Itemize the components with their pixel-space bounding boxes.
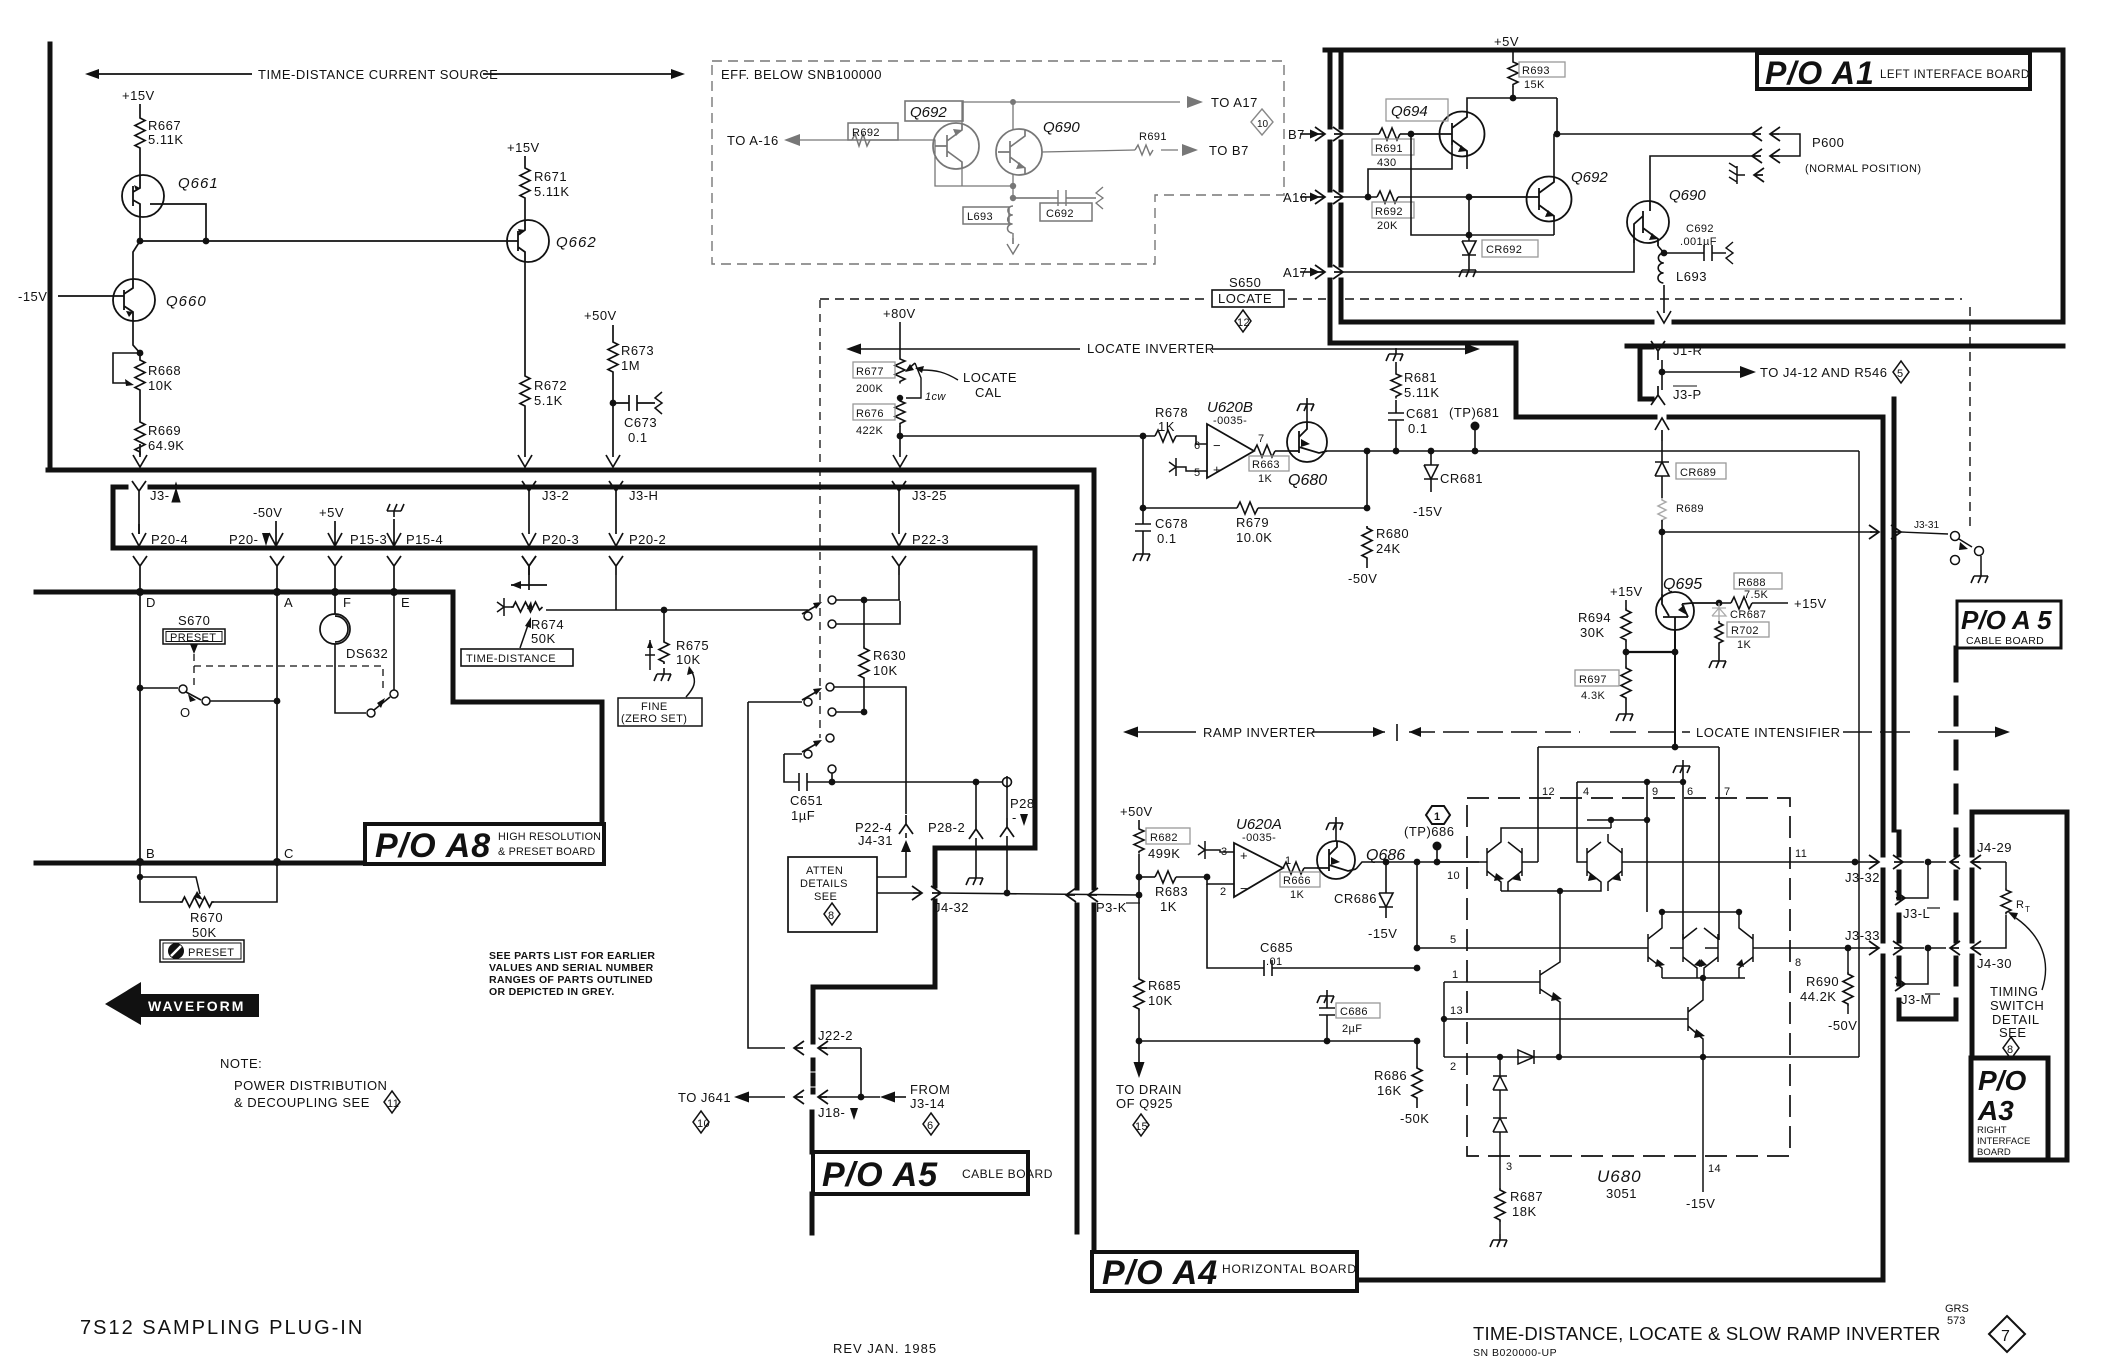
ground U680 top [1673, 760, 1690, 773]
wire Q661 base right to bus [150, 204, 206, 241]
svg-text:4.3K: 4.3K [1581, 690, 1605, 702]
wire R672 to bus arrow [518, 408, 532, 467]
wire mid line to P28 [973, 779, 980, 786]
node -50V feed [229, 505, 283, 547]
svg-text:LOCATE INTENSIFIER: LOCATE INTENSIFIER [1696, 725, 1841, 740]
svg-text:6: 6 [927, 1120, 934, 1132]
svg-text:R692: R692 [1375, 206, 1403, 218]
svg-text:R683: R683 [1155, 884, 1188, 899]
ground feed P15-4 [387, 504, 443, 547]
svg-text:+80V: +80V [883, 306, 916, 321]
connector J4-29 [1971, 840, 2012, 862]
svg-text:Q661: Q661 [178, 175, 219, 192]
resistor R630 [859, 600, 906, 715]
svg-text:9: 9 [1652, 786, 1659, 798]
svg-text:7: 7 [2001, 1328, 2010, 1345]
svg-text:64.9K: 64.9K [148, 438, 184, 453]
svg-text:2: 2 [1450, 1061, 1457, 1073]
svg-text:P15-3: P15-3 [350, 532, 387, 547]
switch E contacts [367, 592, 398, 717]
wire J18 segment [811, 1060, 816, 1092]
svg-text:20K: 20K [1377, 220, 1398, 232]
svg-text:R674: R674 [531, 617, 564, 632]
resistor R683 [1139, 871, 1210, 914]
svg-text:J18-: J18- [818, 1105, 845, 1120]
diode CR689 [1655, 441, 1726, 498]
svg-text:R687: R687 [1510, 1189, 1543, 1204]
wire pin5 line [1417, 947, 1630, 949]
svg-text:50K: 50K [531, 631, 556, 646]
svg-text:PRESET: PRESET [170, 632, 216, 644]
svg-text:PRESET: PRESET [188, 947, 234, 959]
wire A17 [1283, 243, 1634, 280]
transistor mirror right [1444, 978, 1703, 1056]
svg-text:C685: C685 [1260, 940, 1293, 955]
svg-text:J1-R: J1-R [1673, 343, 1702, 358]
svg-text:Q690: Q690 [1669, 187, 1706, 204]
svg-text:5.11K: 5.11K [1404, 385, 1440, 400]
wire A8 node bus [36, 592, 602, 826]
svg-text:J3-25: J3-25 [912, 488, 947, 503]
svg-text:C681: C681 [1406, 406, 1439, 421]
resistor R686 [1374, 1041, 1429, 1126]
connector J3-2 fork [522, 481, 569, 503]
svg-text:499K: 499K [1148, 846, 1180, 861]
wire R667 to Q661 [139, 150, 141, 176]
wire A1 left edge inner [1339, 50, 1344, 322]
svg-text:10: 10 [697, 1118, 710, 1130]
svg-text:6: 6 [1687, 786, 1694, 798]
wire A3 left edge [1970, 812, 1975, 1058]
diode series in pin2 line [1518, 1050, 1534, 1064]
svg-text:10K: 10K [873, 663, 898, 678]
wire A1 right edge [2061, 50, 2066, 322]
label box P/O A3 [1971, 1058, 2048, 1160]
wire base bus to Q662 [140, 240, 504, 242]
connector forks below P20 bus [133, 556, 147, 575]
svg-text:OR DEPICTED IN GREY.: OR DEPICTED IN GREY. [489, 986, 615, 998]
node +5V feed [319, 505, 387, 547]
svg-text:3051: 3051 [1606, 1186, 1637, 1201]
svg-text:(ZERO SET): (ZERO SET) [621, 713, 687, 725]
node dots on A8 bus [136, 588, 144, 596]
capacitor C685 [1207, 884, 1420, 976]
transistor Q662 [504, 220, 597, 262]
svg-text:ATTEN: ATTEN [806, 865, 843, 877]
svg-text:TO A-16: TO A-16 [727, 133, 779, 148]
wire J3 bus [150, 485, 1077, 490]
svg-text:HIGH RESOLUTION: HIGH RESOLUTION [498, 831, 601, 843]
wire P20 bus [126, 546, 1035, 551]
svg-text:J4-29: J4-29 [1977, 840, 2012, 855]
section marker LOCATE INVERTER [846, 341, 1480, 356]
wire pin 9 [1646, 782, 1648, 912]
svg-text:422K: 422K [856, 425, 884, 437]
svg-text:R667: R667 [148, 118, 181, 133]
wire stems to A8 node bus [140, 575, 394, 592]
test point TP681 [1449, 405, 1499, 454]
ground fork pin5 [1169, 458, 1207, 476]
svg-text:15K: 15K [1524, 79, 1545, 91]
wire CR689 node to Q695 [1661, 520, 1663, 594]
svg-text:TO J641: TO J641 [678, 1090, 731, 1105]
svg-text:5: 5 [1897, 368, 1904, 380]
svg-text:30K: 30K [1580, 625, 1605, 640]
svg-text:0.1: 0.1 [1408, 421, 1428, 436]
wire Q661 emitter down to node [139, 216, 141, 241]
svg-text:.01: .01 [1266, 956, 1283, 968]
svg-text:12: 12 [1542, 786, 1555, 798]
svg-text:SN B020000-UP: SN B020000-UP [1473, 1347, 1557, 1359]
label box P/O A4 [1092, 1252, 1357, 1292]
box ATTEN DETAILS [788, 857, 877, 932]
transistor Q686 [1317, 817, 1405, 879]
wire gnd rail pins 4/9 [1577, 781, 1683, 783]
wire A3 top edge [1972, 810, 2067, 815]
connector J1-R [1651, 341, 1702, 390]
svg-text:1µF: 1µF [791, 808, 815, 823]
svg-text:RANGES OF PARTS OUTLINED: RANGES OF PARTS OUTLINED [489, 974, 653, 986]
wire R686 column top [1416, 862, 1418, 948]
svg-text:R691: R691 [1139, 131, 1167, 143]
svg-text:P20-4: P20-4 [151, 532, 188, 547]
wire J3-25 stem [898, 500, 900, 534]
svg-text:P/O A4: P/O A4 [1102, 1254, 1218, 1292]
wire A1 left edge outer [1330, 50, 1883, 417]
svg-text:+5V: +5V [1494, 34, 1519, 49]
svg-text:P20-2: P20-2 [629, 532, 666, 547]
connector P22-3 arrow [892, 532, 949, 547]
svg-text:WAVEFORM: WAVEFORM [148, 998, 245, 1014]
svg-text:P/O A8: P/O A8 [375, 827, 491, 865]
svg-text:S670: S670 [178, 613, 210, 628]
svg-text:8: 8 [828, 910, 835, 922]
resistor R682 [1134, 820, 1190, 880]
svg-text:11: 11 [387, 1098, 399, 1110]
svg-text:C678: C678 [1155, 516, 1188, 531]
resistor RT [1980, 862, 2030, 948]
svg-text:1cw: 1cw [925, 391, 946, 403]
resistor R702 [1709, 621, 1769, 668]
svg-text:J4-32: J4-32 [934, 900, 969, 915]
svg-text:+15V: +15V [1794, 596, 1827, 611]
svg-text:TIME-DISTANCE, LOCATE & SLOW R: TIME-DISTANCE, LOCATE & SLOW RAMP INVERT… [1473, 1323, 1941, 1344]
svg-text:R668: R668 [148, 363, 181, 378]
resistor R694 [1578, 584, 1643, 652]
svg-text:R697: R697 [1579, 674, 1607, 686]
svg-text:U620B: U620B [1207, 399, 1253, 416]
svg-text:L693: L693 [967, 211, 993, 223]
wire A3 right edge [2048, 812, 2067, 1160]
svg-text:Q692: Q692 [1571, 169, 1608, 186]
wire pin 10 line into array [1437, 861, 1480, 863]
svg-text:C692: C692 [1046, 208, 1074, 220]
svg-text:13: 13 [1450, 1005, 1463, 1017]
switch label LOCATE CAL [915, 366, 1017, 400]
op-amp U620A [1198, 816, 1292, 898]
section marker RAMP INVERTER / LOCATE INTENSIFIER [1123, 724, 2010, 741]
svg-text:LOCATE: LOCATE [1218, 291, 1272, 306]
svg-text:Q694: Q694 [1391, 103, 1428, 120]
capacitor C673 [613, 392, 662, 445]
wire A column [276, 592, 278, 862]
wire P/O A4 left edge inner [1092, 470, 1097, 1252]
svg-text:R681: R681 [1404, 370, 1437, 385]
svg-text:GRS: GRS [1945, 1303, 1969, 1315]
section marker TIME-DISTANCE CURRENT SOURCE [85, 67, 685, 82]
svg-text:& DECOUPLING SEE: & DECOUPLING SEE [234, 1095, 370, 1110]
svg-text:+50V: +50V [1120, 804, 1153, 819]
connector P20-4 arrow [132, 524, 188, 547]
connector J3-25 fork [892, 481, 947, 503]
diode CR692 [1459, 194, 1538, 277]
svg-text:D: D [146, 595, 156, 610]
wire P/O A4 bottom edge [1357, 1278, 1883, 1283]
label box P/O A5 top right [1957, 601, 2061, 648]
resistor R668 [135, 353, 181, 393]
wire R673 to C673 node [606, 374, 620, 467]
connector J3-L [1895, 862, 1940, 921]
arrow into locate bus [1655, 418, 1669, 441]
wire +50V down [612, 325, 614, 340]
connector B7 [1288, 127, 1379, 142]
wire R676 to input line / J3-25 [893, 426, 907, 467]
node R677/R676 junction [897, 395, 903, 401]
wire TO DRAIN OF Q925 [1116, 1041, 1182, 1136]
svg-text:(NORMAL POSITION): (NORMAL POSITION) [1805, 163, 1921, 175]
svg-text:5.11K: 5.11K [148, 132, 184, 147]
svg-text:J22-2: J22-2 [818, 1028, 853, 1043]
svg-text:SWITCH: SWITCH [1990, 998, 2044, 1013]
svg-text:Q692: Q692 [910, 104, 947, 121]
svg-text:U620A: U620A [1236, 816, 1282, 833]
diode CR687 grey [1712, 603, 1766, 621]
inductor L693 [1657, 253, 1707, 323]
svg-text:RIGHT: RIGHT [1977, 1125, 2007, 1136]
svg-text:F: F [343, 595, 351, 610]
wire pin 6 [1682, 766, 1684, 940]
box U680 dashed outline [1467, 798, 1790, 1156]
svg-text:R630: R630 [873, 648, 906, 663]
wire top chassis bus [48, 468, 1094, 473]
svg-text:J3-2: J3-2 [542, 488, 569, 503]
wire C686 rail [1139, 1040, 1417, 1042]
switch S670 contacts [137, 685, 281, 720]
svg-text:−: − [1213, 438, 1221, 453]
svg-text:R692: R692 [852, 127, 880, 139]
resistor R679 [1140, 436, 1371, 545]
svg-text:R675: R675 [676, 638, 709, 653]
diode CR681 [1413, 448, 1483, 519]
svg-text:R694: R694 [1578, 610, 1611, 625]
wire Q695 emitter down [1674, 652, 1676, 747]
svg-text:R693: R693 [1522, 65, 1550, 77]
connector J4-32 [877, 886, 1139, 915]
svg-text:7: 7 [1724, 786, 1731, 798]
svg-text:R682: R682 [1150, 832, 1178, 844]
svg-text:Q680: Q680 [1288, 472, 1327, 489]
potentiometer R674 time-distance [497, 556, 616, 646]
wire P/O A5 stem [810, 1112, 815, 1233]
connector P20-3 arrow [522, 532, 579, 547]
svg-text:J3-: J3- [150, 488, 170, 503]
svg-text:R702: R702 [1731, 625, 1759, 637]
wire J3-2 stem [528, 500, 530, 534]
wire pin 12 [1537, 747, 1539, 850]
svg-text:0.1: 0.1 [628, 430, 648, 445]
connector J3-P [1651, 386, 1702, 405]
wire output feedback drop [1366, 451, 1368, 508]
svg-text:-15V: -15V [1368, 926, 1397, 941]
svg-text:R676: R676 [856, 408, 884, 420]
wire array output to J3-32 [1647, 861, 1877, 863]
wire +15V to R671 [524, 156, 526, 166]
svg-text:7S12 SAMPLING PLUG-IN: 7S12 SAMPLING PLUG-IN [80, 1317, 364, 1339]
svg-text:P28-2: P28-2 [928, 820, 965, 835]
svg-text:J4-31: J4-31 [858, 833, 893, 848]
capacitor C692 (early) [1013, 187, 1103, 221]
wire R671 to Q662 [524, 200, 526, 220]
svg-text:J3-P: J3-P [1673, 387, 1702, 402]
node junction dots [137, 238, 144, 245]
resistor R680 [1348, 526, 1409, 586]
svg-text:TO J4-12 AND R546: TO J4-12 AND R546 [1760, 365, 1887, 380]
svg-text:R677: R677 [856, 366, 884, 378]
wire J1-R bracket [1640, 347, 1652, 399]
op-amp U620B [1194, 399, 1265, 479]
svg-text:O: O [180, 705, 191, 720]
ground fork near Q690 base [1729, 163, 1764, 184]
svg-text:P3-K: P3-K [1096, 900, 1127, 915]
svg-text:8: 8 [1795, 957, 1802, 969]
svg-text:10K: 10K [676, 652, 701, 667]
svg-text:14: 14 [1708, 1163, 1721, 1175]
svg-text:TO B7: TO B7 [1209, 143, 1249, 158]
inductor L693 (early) [963, 206, 1019, 254]
wire A8 bottom [36, 861, 367, 866]
wire Q680 output line [1327, 450, 1859, 452]
svg-text:CR689: CR689 [1680, 467, 1716, 479]
svg-text:J3-14: J3-14 [910, 1096, 945, 1111]
wire right board edge outer [1881, 417, 1886, 1280]
svg-text:B: B [146, 846, 155, 861]
svg-text:1M: 1M [621, 358, 640, 373]
switch label FINE ZERO SET [618, 666, 702, 726]
transistor mirror left [1444, 891, 1560, 1056]
svg-text:LEFT INTERFACE BOARD: LEFT INTERFACE BOARD [1880, 69, 2030, 81]
svg-text:A: A [284, 595, 293, 610]
wire Q660 emitter down [133, 321, 140, 353]
svg-text:(TP)686: (TP)686 [1404, 824, 1454, 839]
svg-text:SEE: SEE [1999, 1025, 2027, 1040]
svg-text:U680: U680 [1597, 1167, 1642, 1186]
svg-text:A3: A3 [1977, 1095, 2014, 1126]
test point TP686 [1404, 824, 1454, 865]
wire R694/Q695 emitter rail [1623, 630, 1679, 655]
resistor R687 [1490, 1188, 1543, 1247]
switch S650 contacts (right) [1951, 532, 1989, 584]
svg-text:LOCATE INVERTER: LOCATE INVERTER [1087, 341, 1215, 356]
svg-text:R: R [2016, 899, 2024, 911]
node R668 top dot [137, 350, 144, 357]
svg-text:R670: R670 [190, 910, 223, 925]
wire Q694/Q692 emitter rail [1411, 134, 1554, 235]
resistor R666 [1280, 862, 1320, 901]
svg-text:44.2K: 44.2K [1800, 989, 1836, 1004]
wire cable dashed edge left [1899, 648, 1956, 1019]
svg-text:OF Q925: OF Q925 [1116, 1096, 1173, 1111]
svg-text:5: 5 [1450, 934, 1457, 946]
wire P22 bus turn down [813, 548, 1035, 1042]
svg-text:L693: L693 [1676, 269, 1707, 284]
svg-text:R678: R678 [1155, 405, 1188, 420]
svg-text:C692: C692 [1686, 223, 1714, 235]
svg-text:11: 11 [1795, 848, 1807, 860]
svg-text:P20-: P20- [229, 532, 258, 547]
svg-text:.001µF: .001µF [1680, 236, 1717, 248]
svg-text:C686: C686 [1340, 1006, 1368, 1018]
resistor R669 [135, 420, 184, 454]
transistor array quad 1 [1480, 820, 1647, 891]
resistor R697 [1575, 652, 1633, 721]
svg-text:P/O A1: P/O A1 [1765, 55, 1875, 91]
wire Q686 output line [1356, 862, 1479, 869]
svg-text:TO DRAIN: TO DRAIN [1116, 1082, 1182, 1097]
svg-text:J3-L: J3-L [1903, 906, 1930, 921]
connector J18-V [794, 1090, 864, 1120]
svg-text:P28: P28 [1010, 796, 1035, 811]
resistor R667 [135, 116, 184, 150]
capacitor C686 [1317, 990, 1380, 1044]
svg-text:0.1: 0.1 [1157, 531, 1177, 546]
wire J3-31 [1662, 520, 1948, 539]
transistor Q694 [1386, 99, 1485, 157]
wire input line to R678 [900, 435, 1155, 437]
svg-text:P/O: P/O [1978, 1065, 2026, 1096]
svg-text:1: 1 [1434, 811, 1441, 823]
svg-text:C: C [284, 846, 294, 861]
wire Q660 collector up [133, 241, 140, 279]
potentiometer R677 [853, 357, 946, 403]
svg-text:P20-3: P20-3 [542, 532, 579, 547]
svg-text:6: 6 [1194, 440, 1201, 452]
connector P3-K [1066, 888, 1140, 915]
wire pin 14 to -15V [1702, 1057, 1704, 1192]
svg-text:R663: R663 [1252, 459, 1280, 471]
connector J3-33 [1845, 928, 2012, 971]
svg-text:P22-3: P22-3 [912, 532, 949, 547]
svg-text:NOTE:: NOTE: [220, 1056, 262, 1071]
svg-text:(TP)681: (TP)681 [1449, 405, 1499, 420]
svg-text:R686: R686 [1374, 1068, 1407, 1083]
wire R668 to R669 [139, 392, 141, 420]
svg-text:-50V: -50V [1828, 1018, 1857, 1033]
resistor R678 [1155, 405, 1207, 444]
svg-text:R688: R688 [1738, 577, 1766, 589]
svg-text:SEE PARTS LIST FOR EARLIER: SEE PARTS LIST FOR EARLIER [489, 950, 655, 962]
svg-text:Q695: Q695 [1663, 576, 1702, 593]
svg-text:50K: 50K [192, 925, 217, 940]
svg-text:POWER DISTRIBUTION: POWER DISTRIBUTION [234, 1078, 387, 1093]
switch linkage dashed vertical [819, 300, 821, 738]
resistor R690 [1800, 948, 1857, 1033]
svg-text:+15V: +15V [507, 140, 540, 155]
svg-text:SEE: SEE [814, 891, 837, 903]
switch wafer 3 [784, 734, 836, 782]
lamp DS632 [320, 592, 388, 661]
svg-text:Q690: Q690 [1043, 119, 1080, 136]
wire pin1/13/2 stub [1443, 982, 1445, 1057]
